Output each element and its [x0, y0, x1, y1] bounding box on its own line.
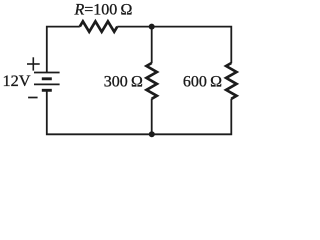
wire: node A down to 300 ohm resistor top lead [151, 27, 153, 64]
battery V1: short thick plate (bottom cell -) [42, 89, 52, 92]
wire: 300 ohm bottom lead to node B [151, 99, 153, 135]
wire: 600 ohm bottom lead to bottom-right corner and across to node B [152, 99, 232, 135]
svg-text:600 Ω: 600 Ω [183, 73, 222, 90]
resistor R1 100 ohm (horizontal zigzag) [80, 21, 118, 31]
label: plus sign at battery positive terminal [27, 57, 40, 70]
battery V1: short thick plate (top cell -) [42, 77, 52, 80]
node A (top junction dot) [149, 24, 155, 30]
node B (bottom junction dot) [149, 131, 155, 137]
resistor R2 300 ohm (vertical zigzag) [147, 63, 157, 99]
wire: R1 right lead to node A [117, 26, 151, 28]
label: minus sign at battery negative terminal [28, 97, 37, 99]
wire: node A to top-right corner and down to 600 ohm resistor top lead [152, 27, 232, 64]
wire: battery positive terminal up to top-left corner and across to R1 left lead [47, 27, 80, 73]
wire: node B across bottom to bottom-left corner and up to battery negative terminal [47, 90, 152, 134]
battery V1: long plate (bottom cell +) [34, 83, 60, 85]
svg-text:12V: 12V [3, 71, 31, 90]
svg-text:300 Ω: 300 Ω [104, 73, 143, 90]
resistor R3 600 ohm (vertical zigzag) [226, 63, 236, 99]
svg-text:R=100 Ω: R=100 Ω [74, 1, 133, 18]
battery V1 12V: long plate (top cell +) [34, 72, 60, 74]
